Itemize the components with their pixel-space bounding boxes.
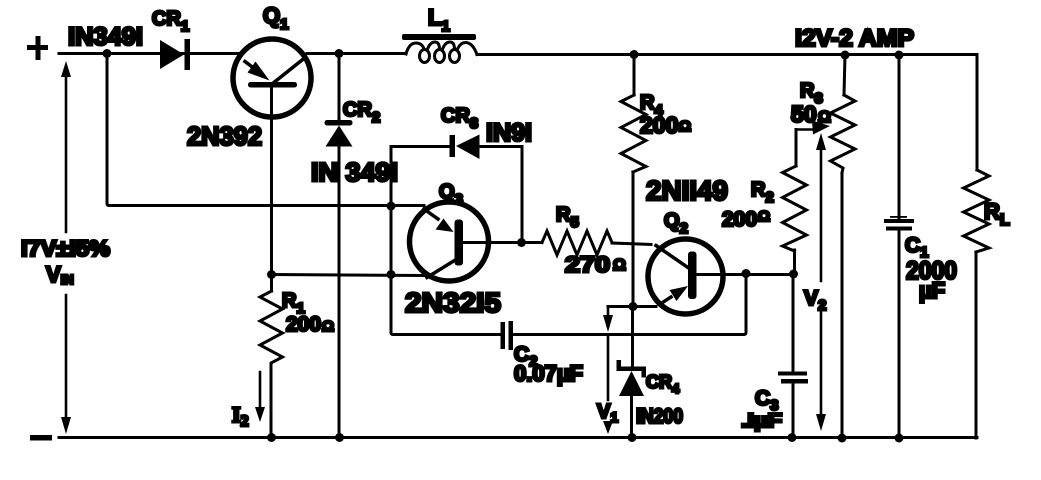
svg-text:IN200: IN200 (636, 405, 683, 428)
capacitor C1 (884, 55, 914, 438)
wire top rail Q1 to L1 (307, 52, 406, 55)
minus terminal (30, 435, 52, 441)
wire y274 (Q1 base node to Q3) (272, 275, 425, 276)
wire x107 down and across to Q3 emitter (107, 54, 424, 206)
node top rail R4 (630, 50, 639, 59)
node CR4 top (629, 302, 638, 311)
resistor R4 200 ohm (621, 55, 646, 307)
node R2 bottom / C3 top (789, 270, 798, 279)
wire Q1 base lead down to node (270, 87, 273, 275)
wire R5 to Q2 collector (612, 243, 651, 245)
node C2 wire junction (742, 269, 751, 278)
node bottom R3 (838, 434, 847, 443)
diode CR1 (160, 39, 190, 70)
node bottom CR4 (628, 433, 637, 442)
capacitor C3 (778, 372, 808, 384)
Vin measure arrow lower (61, 295, 71, 434)
diode CR2 (325, 120, 353, 147)
zener diode CR4 (617, 307, 647, 438)
diode CR3 with loop wire (391, 135, 522, 243)
wire Q2 base to R2 bottom node (697, 273, 794, 276)
plus terminal (27, 36, 48, 60)
wire C3 branch (792, 274, 795, 438)
svg-text:I7V±I5%: I7V±I5% (21, 236, 110, 261)
wire C2 to Q2 base node (513, 274, 746, 335)
resistor RL (964, 170, 990, 438)
svg-text:200: 200 (286, 313, 321, 336)
svg-text:270: 270 (565, 252, 610, 277)
node junction at x107 top rail (103, 49, 112, 58)
svg-text:Ω: Ω (758, 208, 770, 225)
Vin measure arrow upper (61, 61, 71, 232)
transistor Q1 (233, 39, 311, 117)
wire x391 vertical (CR3 loop down to C2 wire) (391, 147, 501, 335)
resistor R1 200 ohm (260, 275, 283, 438)
svg-text:Ω: Ω (679, 118, 691, 135)
resistor R2 200 ohm (783, 130, 807, 274)
node bottom C3 (788, 433, 797, 442)
node CR2 top junction (335, 49, 344, 58)
resistor R3 50 ohm (831, 55, 856, 438)
resistor R5 270 ohm (542, 231, 612, 255)
wire CR2 branch upper (338, 54, 341, 121)
svg-text:Ω: Ω (613, 257, 626, 274)
svg-text:IN9I: IN9I (486, 119, 532, 147)
svg-text:2NII49: 2NII49 (646, 175, 728, 206)
node bottom R1 (267, 433, 276, 442)
svg-text:0.07µF: 0.07µF (514, 361, 583, 386)
wire Q2 emitter node (608, 305, 656, 308)
inductor L1 coil (406, 42, 477, 63)
transistor Q2 (648, 239, 723, 314)
svg-text:I2V-2 AMP: I2V-2 AMP (795, 25, 914, 52)
svg-text:2N392: 2N392 (187, 121, 262, 151)
wire RL bottom corner (975, 436, 978, 440)
svg-text:IN 349I: IN 349I (311, 157, 398, 187)
capacitor C2 (501, 321, 514, 350)
V1 measure line mid (607, 337, 610, 400)
node x391 y206 (387, 202, 396, 211)
svg-text:200: 200 (722, 208, 757, 231)
svg-text:.IµF: .IµF (741, 411, 782, 432)
svg-text:50: 50 (791, 101, 817, 127)
V1 measure arrow upper segment (603, 307, 613, 333)
svg-text:Ω: Ω (322, 318, 334, 335)
wire Q3 base to R5 (463, 241, 542, 244)
svg-text:Ω: Ω (818, 109, 831, 126)
node Q1 base / R1 top (267, 270, 276, 279)
node CR3 loop to R5 wire (517, 238, 526, 247)
node bottom C1 (895, 434, 904, 443)
bottom rail wire (59, 436, 977, 439)
svg-text:200: 200 (640, 112, 678, 138)
V1 measure arrow lower (603, 421, 613, 434)
V2 measure arrow upper (816, 133, 826, 281)
wire top rail L1 to right corner (477, 55, 977, 171)
potentiometer wiper wire and arrow (796, 121, 830, 141)
inductor L1 core bar (402, 34, 476, 40)
transistor Q3 (410, 202, 489, 281)
node top rail R3 (841, 51, 850, 60)
node top rail C1 (895, 51, 904, 60)
svg-text:IN349I: IN349I (68, 23, 143, 51)
svg-text:2N32I5: 2N32I5 (405, 287, 501, 318)
wire top rail left (plus to Q1) (59, 52, 239, 55)
I2 current arrow (255, 372, 265, 422)
V2 measure arrow lower (816, 311, 826, 431)
node bottom CR2 (335, 433, 344, 442)
svg-text:µF: µF (919, 278, 945, 303)
node x391 y274 (387, 270, 396, 279)
wire CR2 branch lower (338, 146, 341, 438)
